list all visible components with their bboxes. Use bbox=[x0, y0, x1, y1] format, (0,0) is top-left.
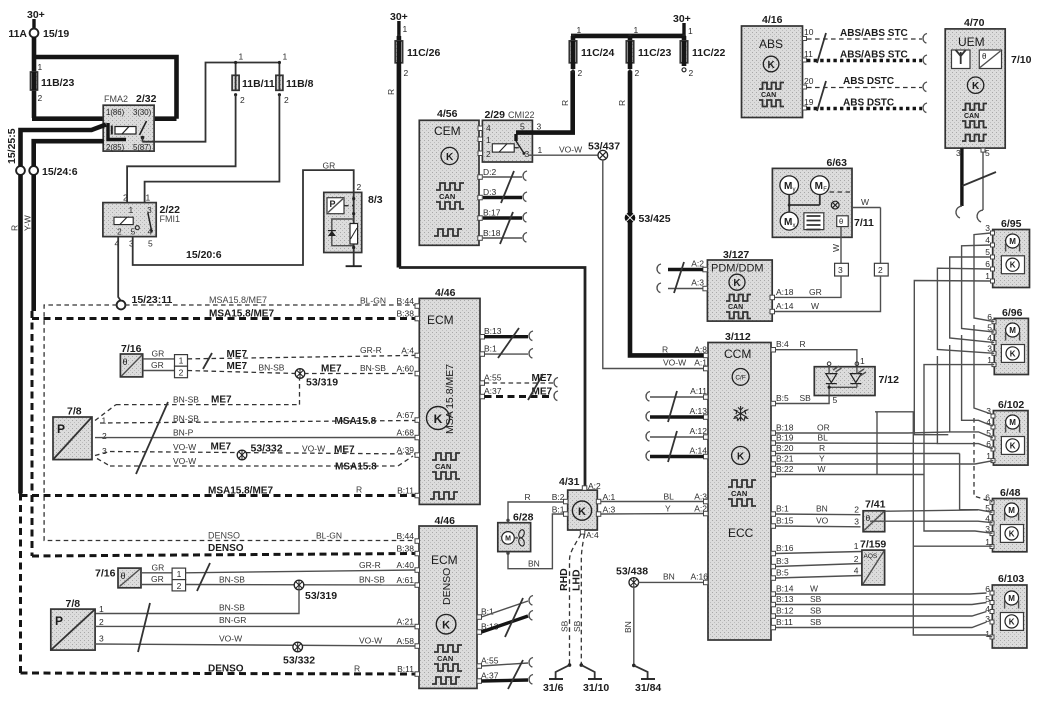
svg-text:30+: 30+ bbox=[673, 13, 691, 25]
svg-text:B:1: B:1 bbox=[776, 504, 789, 514]
svg-text:W: W bbox=[831, 244, 841, 252]
connector box 3 bbox=[835, 263, 849, 276]
svg-text:VO-W: VO-W bbox=[359, 636, 382, 646]
svg-text:B:18: B:18 bbox=[483, 228, 501, 238]
svg-text:SB: SB bbox=[810, 617, 822, 627]
svg-text:VO: VO bbox=[816, 516, 829, 526]
wire ME7 to ECM A:4 bbox=[188, 345, 416, 360]
wire SB bus to 6/103 pin1 bbox=[875, 412, 993, 637]
connector slash D:2 D:3 bbox=[501, 171, 514, 203]
svg-text:30+: 30+ bbox=[27, 9, 45, 21]
svg-text:ME7: ME7 bbox=[227, 349, 248, 360]
svg-text:A:8: A:8 bbox=[694, 345, 707, 355]
CCM pin A:12 stub bbox=[646, 426, 708, 441]
connector slash B:17 B:18 bbox=[500, 212, 513, 244]
svg-text:MSA15.8: MSA15.8 bbox=[335, 416, 377, 427]
relay 2/32 switch contact bbox=[140, 121, 147, 142]
svg-text:7/10: 7/10 bbox=[1011, 54, 1032, 66]
wire 30+ feed down through fuse 11B/23 bbox=[32, 37, 37, 118]
svg-text:2/32: 2/32 bbox=[136, 93, 157, 105]
svg-text:B:11: B:11 bbox=[397, 664, 414, 674]
splice 53/332 (DENSO) bbox=[283, 642, 315, 666]
ground 31/6 bbox=[543, 663, 571, 694]
svg-text:BL: BL bbox=[664, 492, 675, 502]
sensor 7/41 theta bbox=[863, 499, 885, 532]
fuse 11B/11 bbox=[232, 75, 275, 105]
svg-text:11C/23: 11C/23 bbox=[638, 47, 671, 59]
svg-text:A:3: A:3 bbox=[691, 278, 704, 288]
svg-text:Y: Y bbox=[665, 504, 671, 514]
svg-text:6/96: 6/96 bbox=[1002, 307, 1023, 319]
ABS pin 19 wire ABS DSTC bbox=[803, 97, 928, 113]
svg-text:A:1: A:1 bbox=[603, 492, 616, 502]
PDM CAN symbol bbox=[726, 295, 751, 319]
ECM MSA left pins bbox=[397, 296, 420, 498]
svg-text:A:68: A:68 bbox=[397, 428, 415, 438]
svg-text:53/437: 53/437 bbox=[588, 141, 620, 153]
CCM pin B:1 wire BN to 7/41 bbox=[771, 504, 861, 517]
svg-text:B:11: B:11 bbox=[397, 486, 414, 496]
svg-text:SB: SB bbox=[810, 606, 822, 616]
connector slash ABS 20 19 bbox=[817, 81, 826, 111]
ECM MSA pin A:37 wire ME7 bbox=[480, 386, 558, 401]
damper motor 6/102 bbox=[993, 399, 1028, 465]
UEM K symbol bbox=[967, 77, 983, 93]
svg-text:2: 2 bbox=[486, 149, 491, 159]
svg-text:53/332: 53/332 bbox=[283, 655, 315, 667]
svg-text:R: R bbox=[10, 225, 20, 231]
ECM DENSO pin A:55 wire bbox=[477, 656, 533, 669]
svg-text:R: R bbox=[356, 485, 362, 495]
svg-text:15/25:5: 15/25:5 bbox=[6, 128, 18, 164]
svg-text:BL-GN: BL-GN bbox=[316, 531, 342, 541]
svg-text:A:61: A:61 bbox=[397, 575, 415, 585]
4/31 pin A:4 bbox=[580, 530, 599, 540]
svg-text:31/6: 31/6 bbox=[543, 682, 564, 694]
svg-text:VO-W: VO-W bbox=[663, 358, 686, 368]
svg-text:ABS DSTC: ABS DSTC bbox=[843, 76, 894, 87]
svg-text:DENSO: DENSO bbox=[441, 568, 453, 605]
CCM pin B:3 wire to 7/159 bbox=[771, 554, 862, 569]
UEM pin 3 wire bbox=[956, 148, 962, 218]
svg-text:2: 2 bbox=[177, 581, 182, 591]
svg-text:R: R bbox=[662, 345, 668, 355]
svg-text:B:15: B:15 bbox=[776, 516, 794, 526]
fuse 11C/26 bbox=[395, 36, 440, 78]
svg-text:CAN: CAN bbox=[731, 489, 747, 498]
ECM DENSO pin B:1 wire bbox=[477, 596, 533, 620]
6/63 motor My bbox=[780, 176, 799, 195]
CEM pin B:18 bbox=[478, 228, 527, 242]
svg-text:MSA15.8/ME7: MSA15.8/ME7 bbox=[209, 295, 267, 305]
fuse 11B/23 bbox=[31, 62, 75, 103]
svg-text:BN: BN bbox=[816, 504, 828, 514]
svg-text:OR: OR bbox=[817, 423, 830, 433]
connector slash A:55 A:37 bbox=[528, 374, 543, 400]
svg-text:11C/24: 11C/24 bbox=[581, 47, 614, 59]
svg-text:6/48: 6/48 bbox=[1000, 487, 1021, 499]
4/31 pin A:1 wire BL to CCM A:3 bbox=[596, 492, 708, 504]
svg-text:CAN: CAN bbox=[964, 113, 979, 120]
svg-text:B:44: B:44 bbox=[397, 531, 415, 541]
connector slash B:13 B:1 bbox=[498, 328, 519, 358]
svg-text:SB: SB bbox=[810, 594, 822, 604]
svg-text:6/102: 6/102 bbox=[998, 399, 1024, 411]
svg-text:B:19: B:19 bbox=[776, 433, 794, 443]
svg-text:ECM: ECM bbox=[427, 313, 454, 327]
ECM MSA pin A:55 wire ME7 bbox=[480, 373, 558, 388]
wire 6/28 bottom BN to 4/31 B:1 bbox=[506, 514, 563, 569]
svg-text:W: W bbox=[818, 464, 826, 474]
CCM pin B:5 wire SB to 7/12 bbox=[771, 393, 838, 406]
module ABS 4/16 bbox=[742, 14, 803, 118]
wire R from 11C/26 to 4/31 A:2 bbox=[386, 63, 399, 268]
svg-text:R: R bbox=[800, 339, 806, 349]
splice 53/437 bbox=[588, 141, 620, 161]
wire R down left side bbox=[10, 175, 21, 494]
svg-text:2: 2 bbox=[38, 93, 43, 103]
svg-text:1: 1 bbox=[102, 416, 107, 426]
svg-text:B:12: B:12 bbox=[776, 606, 794, 616]
module CEM 4/56 bbox=[419, 108, 479, 245]
connector slash 7/8 DENSO bbox=[138, 603, 150, 652]
svg-text:M: M bbox=[1009, 237, 1016, 246]
CCM pin A:11 stub bbox=[646, 386, 708, 401]
fuse 11C/22 bbox=[680, 36, 725, 78]
ECM DENSO K symbol bbox=[436, 614, 456, 634]
svg-text:R: R bbox=[560, 100, 570, 106]
svg-text:K: K bbox=[446, 152, 454, 163]
wire DENSO B:38 harness thick bbox=[32, 543, 415, 556]
svg-text:M: M bbox=[1009, 418, 1016, 427]
svg-text:A:4: A:4 bbox=[586, 530, 599, 540]
wire 15/25:5 to relay 86 bbox=[21, 125, 107, 167]
svg-text:W: W bbox=[810, 584, 818, 594]
wire bus into relay FMA2 bbox=[32, 116, 177, 121]
svg-text:Y: Y bbox=[819, 454, 825, 464]
module ECM 4/46 MSA bbox=[419, 287, 480, 504]
svg-text:3/127: 3/127 bbox=[723, 249, 749, 261]
svg-text:1: 1 bbox=[283, 52, 288, 62]
7/12 LED left bbox=[826, 366, 842, 384]
svg-text:θ: θ bbox=[121, 571, 126, 581]
svg-text:2: 2 bbox=[404, 68, 409, 78]
svg-text:K: K bbox=[1009, 617, 1015, 626]
svg-text:GR: GR bbox=[809, 287, 822, 297]
sensor 7/8 (DENSO) pressure bbox=[51, 598, 95, 650]
7/8 MSA pin2 wire BN-P bbox=[95, 428, 415, 442]
svg-text:53/319: 53/319 bbox=[306, 377, 338, 389]
svg-text:B:38: B:38 bbox=[397, 544, 415, 554]
sensor 7/159 AQS bbox=[860, 539, 886, 585]
relay 2/22 coil bbox=[114, 217, 133, 224]
svg-text:2: 2 bbox=[102, 431, 107, 441]
wire 11B/8 to relay 2/22 pin 1 bbox=[145, 95, 280, 203]
svg-text:A:67: A:67 bbox=[397, 410, 415, 420]
CCM snowflake symbol bbox=[733, 406, 748, 421]
svg-text:B:14: B:14 bbox=[776, 584, 794, 594]
svg-text:11: 11 bbox=[804, 49, 813, 59]
node 30+ (middle feed) bbox=[390, 11, 408, 38]
svg-text:BN-SB: BN-SB bbox=[360, 363, 386, 373]
wire BN down to ground 31/84 bbox=[623, 587, 634, 666]
svg-text:1: 1 bbox=[403, 24, 408, 34]
svg-text:K: K bbox=[442, 620, 450, 632]
unit 8/3 bbox=[324, 182, 383, 253]
6/63 motor MF bbox=[811, 176, 830, 195]
svg-text:1: 1 bbox=[860, 356, 865, 366]
svg-text:BN: BN bbox=[623, 621, 633, 633]
svg-text:FMI1: FMI1 bbox=[160, 214, 181, 224]
ECM MSA pin B:13 wire bbox=[480, 326, 533, 341]
svg-text:SB: SB bbox=[572, 620, 582, 632]
4/31 pin B:1 bbox=[552, 505, 568, 517]
svg-text:15/23:11: 15/23:11 bbox=[132, 294, 173, 306]
ECM DENSO CAN symbol bbox=[432, 645, 462, 684]
wire fuse top stubs bbox=[234, 52, 288, 76]
svg-text:2: 2 bbox=[357, 182, 362, 192]
svg-text:ABS DSTC: ABS DSTC bbox=[843, 98, 894, 109]
svg-text:K: K bbox=[767, 60, 775, 71]
wire 30+ loop to relay 2/32 pin 30 bbox=[34, 57, 177, 119]
svg-text:7/11: 7/11 bbox=[854, 217, 874, 229]
8/3 diode branch bbox=[328, 219, 354, 246]
wire 11B/11 to relay 2/22 pin 2 bbox=[127, 95, 236, 203]
svg-text:A:58: A:58 bbox=[397, 636, 415, 646]
svg-text:5: 5 bbox=[131, 227, 136, 237]
svg-text:BL-GN: BL-GN bbox=[360, 296, 386, 306]
svg-text:LHD: LHD bbox=[571, 569, 583, 591]
svg-text:4: 4 bbox=[486, 123, 491, 133]
svg-text:A:37: A:37 bbox=[484, 386, 502, 396]
lamp unit 7/12 bbox=[814, 362, 899, 396]
svg-text:B:1: B:1 bbox=[484, 344, 497, 354]
svg-text:6/95: 6/95 bbox=[1001, 218, 1022, 230]
splice 53/425 bbox=[625, 213, 671, 225]
svg-text:1: 1 bbox=[486, 135, 491, 145]
svg-text:7/159: 7/159 bbox=[860, 539, 886, 551]
svg-text:PDM/DDM: PDM/DDM bbox=[711, 263, 764, 275]
PDM pin A:18 bbox=[770, 287, 794, 300]
svg-text:CAN: CAN bbox=[728, 304, 743, 311]
svg-text:53/438: 53/438 bbox=[616, 566, 648, 578]
svg-text:B:13: B:13 bbox=[776, 594, 794, 604]
svg-text:31/10: 31/10 bbox=[583, 682, 609, 694]
6/63 lamp symbol bbox=[831, 201, 839, 209]
7/8 DENSO pin labels bbox=[99, 603, 245, 644]
fuse 11B/8 bbox=[276, 75, 314, 105]
wire 15/24:6 to relay 85 bbox=[34, 141, 104, 166]
svg-text:VO-W: VO-W bbox=[173, 456, 196, 466]
ECM DENSO pin A:37 wire bbox=[477, 671, 533, 685]
svg-text:BN-SB: BN-SB bbox=[259, 363, 285, 373]
svg-text:GR: GR bbox=[151, 360, 164, 370]
svg-text:3: 3 bbox=[99, 634, 104, 644]
svg-text:BN-GR: BN-GR bbox=[219, 615, 246, 625]
CEM pin D:3 bbox=[478, 187, 527, 202]
svg-text:2: 2 bbox=[123, 193, 128, 203]
relay 2/22 switch bbox=[135, 213, 153, 233]
svg-text:B:5: B:5 bbox=[776, 568, 789, 578]
svg-text:M: M bbox=[505, 536, 511, 543]
CCM pin B:18 wire OR bbox=[771, 423, 908, 436]
7/16 MSA connector 1 2 bbox=[175, 355, 188, 378]
wire bus 6/95 pin5 to 6/96 pin4 to 6/102 pin5 bbox=[950, 257, 995, 343]
CCM pin B:22 wire W bbox=[771, 464, 924, 477]
svg-text:6: 6 bbox=[985, 259, 990, 269]
wire splice to ECM A:60 bbox=[304, 363, 415, 375]
svg-text:2: 2 bbox=[240, 95, 245, 105]
wire 30+ bus over fuses 11C bbox=[571, 25, 693, 38]
svg-text:K: K bbox=[737, 452, 745, 463]
svg-text:B:4: B:4 bbox=[776, 339, 789, 349]
7/8 DENSO pin3 wire VO-W bbox=[95, 634, 415, 647]
sensor 7/11 theta bbox=[837, 216, 874, 229]
fuse 11C/23 bbox=[617, 36, 671, 106]
8/3 resistor bbox=[350, 224, 358, 245]
svg-text:M: M bbox=[1009, 326, 1016, 335]
6/102 pins bbox=[986, 406, 995, 463]
svg-text:VO-W: VO-W bbox=[302, 444, 325, 454]
splice 53/319 (MSA) bbox=[295, 369, 338, 389]
svg-text:MSA15.8/ME7: MSA15.8/ME7 bbox=[208, 486, 273, 497]
7/16 DENSO wires GR bbox=[141, 563, 172, 585]
svg-text:R: R bbox=[819, 443, 825, 453]
svg-text:11B/23: 11B/23 bbox=[41, 77, 74, 89]
splice 53/332 (MSA) bbox=[237, 443, 283, 460]
relay 2/22 FMI1 bbox=[103, 193, 180, 249]
svg-text:F: F bbox=[823, 187, 827, 193]
sensor 7/16 (MSA) bbox=[120, 343, 142, 377]
svg-text:SB: SB bbox=[800, 393, 812, 403]
4/31 K symbol bbox=[572, 501, 591, 520]
svg-text:1: 1 bbox=[577, 25, 582, 35]
ABS pin 11 wire ABS/ABS STC bbox=[803, 49, 928, 65]
svg-text:3: 3 bbox=[537, 122, 542, 132]
svg-text:1: 1 bbox=[854, 541, 859, 551]
svg-text:11A: 11A bbox=[8, 28, 27, 40]
ECM DENSO pin B:13 wire bbox=[477, 611, 533, 635]
svg-text:5: 5 bbox=[833, 395, 838, 405]
relay 2/29 switch bbox=[516, 134, 526, 155]
UEM antenna symbol bbox=[952, 50, 971, 69]
svg-text:19: 19 bbox=[804, 97, 814, 107]
svg-text:M: M bbox=[784, 217, 792, 228]
svg-text:15/20:6: 15/20:6 bbox=[186, 249, 222, 261]
node 15/23:11 bbox=[117, 294, 173, 309]
svg-text:1: 1 bbox=[179, 356, 184, 366]
wire bus 6/95 pin6 to 6/96 pin3 to 6/102 pin6 bbox=[937, 268, 994, 353]
svg-text:A:14: A:14 bbox=[776, 301, 794, 311]
node 30+ (left feed) bbox=[27, 9, 45, 29]
svg-text:GR: GR bbox=[152, 563, 165, 573]
svg-text:4/46: 4/46 bbox=[435, 287, 456, 299]
node 15/25:5 bbox=[6, 128, 25, 175]
svg-text:5: 5 bbox=[985, 247, 990, 257]
6/95 pins bbox=[985, 223, 994, 283]
svg-text:W: W bbox=[811, 301, 819, 311]
6/28 fan symbol bbox=[518, 529, 526, 547]
wire 7/8 DENSO pin1 to splice bbox=[95, 589, 299, 613]
svg-text:15/19: 15/19 bbox=[43, 28, 69, 40]
ground 31/10 bbox=[580, 663, 610, 694]
sensor 7/8 (MSA) pressure bbox=[53, 406, 92, 460]
svg-text:CAN: CAN bbox=[435, 462, 451, 471]
svg-text:D:2: D:2 bbox=[483, 167, 497, 177]
CCM pin B:11 wire SB to 6/103 pin3 bbox=[771, 617, 987, 630]
svg-text:7/16: 7/16 bbox=[121, 343, 142, 355]
svg-text:2/29: 2/29 bbox=[485, 109, 506, 121]
wire 6/95 pin1 down to junction bbox=[914, 281, 990, 435]
wire W from 6/63 to connector 2 bbox=[852, 197, 881, 263]
CCM pin B:12 wire SB to 6/103 pin4 bbox=[771, 606, 987, 619]
svg-text:5: 5 bbox=[520, 122, 525, 132]
svg-text:B:5: B:5 bbox=[776, 393, 789, 403]
wire 7/11 down to connector 3 bbox=[831, 227, 841, 264]
wire 7/41 side link bbox=[885, 510, 978, 511]
CEM to 2/29 pins bbox=[478, 126, 483, 156]
wire bus 6/96 pin1 down to 6/48 pin3 bbox=[924, 365, 994, 534]
PDM K symbol bbox=[729, 274, 745, 290]
svg-text:B:16: B:16 bbox=[776, 543, 794, 553]
svg-text:BN: BN bbox=[528, 559, 540, 569]
svg-text:2: 2 bbox=[179, 368, 184, 378]
svg-text:2: 2 bbox=[578, 68, 583, 78]
svg-text:θ: θ bbox=[839, 217, 843, 226]
svg-text:1: 1 bbox=[538, 145, 543, 155]
7/12 LED right bbox=[850, 369, 866, 384]
relay 2/29 coil bbox=[492, 144, 521, 152]
svg-text:AQS: AQS bbox=[864, 553, 878, 560]
wire ME7 BN-SB to splice 53/319 bbox=[188, 361, 297, 374]
svg-text:DENSO: DENSO bbox=[208, 531, 240, 541]
svg-text:11B/11: 11B/11 bbox=[242, 78, 275, 90]
svg-text:2: 2 bbox=[689, 68, 694, 78]
sensor 7/16 (DENSO) bbox=[95, 568, 141, 588]
svg-text:2(85): 2(85) bbox=[106, 143, 125, 152]
svg-text:7/8: 7/8 bbox=[66, 598, 81, 610]
svg-text:1: 1 bbox=[99, 604, 104, 614]
unit 6/63 blower box bbox=[772, 157, 852, 237]
CCM pin B:15 wire VO to 7/41 bbox=[771, 516, 861, 529]
svg-text:VO-W: VO-W bbox=[219, 634, 242, 644]
6/63 MF dashed stub bbox=[830, 191, 853, 193]
svg-text:θ: θ bbox=[866, 513, 871, 523]
CCM pin A:3 bbox=[704, 499, 709, 504]
svg-text:GR-R: GR-R bbox=[359, 560, 381, 570]
svg-text:ABS: ABS bbox=[759, 37, 783, 51]
svg-text:K: K bbox=[1009, 529, 1015, 538]
wire Y-W down bbox=[23, 175, 34, 312]
7/16 DENSO connector 1 2 bbox=[172, 568, 186, 591]
svg-text:RHD: RHD bbox=[558, 568, 570, 591]
connector box 2 bbox=[874, 263, 888, 276]
wire 15/23:11 to DENSO B:44 bbox=[44, 305, 415, 541]
svg-text:BN-SB: BN-SB bbox=[359, 575, 385, 585]
svg-text:B:3: B:3 bbox=[776, 556, 789, 566]
svg-text:GR: GR bbox=[323, 161, 336, 171]
svg-text:ABS/ABS STC: ABS/ABS STC bbox=[840, 28, 908, 39]
wire relay 87 to fuses 11B/11 11B/8 bbox=[143, 63, 280, 142]
CCM K symbol bbox=[732, 447, 750, 465]
svg-text:A:3: A:3 bbox=[603, 505, 616, 515]
svg-text:53/319: 53/319 bbox=[305, 590, 337, 602]
damper motor 6/48 bbox=[993, 487, 1027, 552]
svg-text:θ: θ bbox=[123, 357, 128, 367]
wire GR-R to DENSO ECM A:40 bbox=[186, 560, 415, 573]
node 30+ (right feed) bbox=[673, 13, 691, 36]
relay 2/29 CMI22 bbox=[482, 109, 542, 162]
